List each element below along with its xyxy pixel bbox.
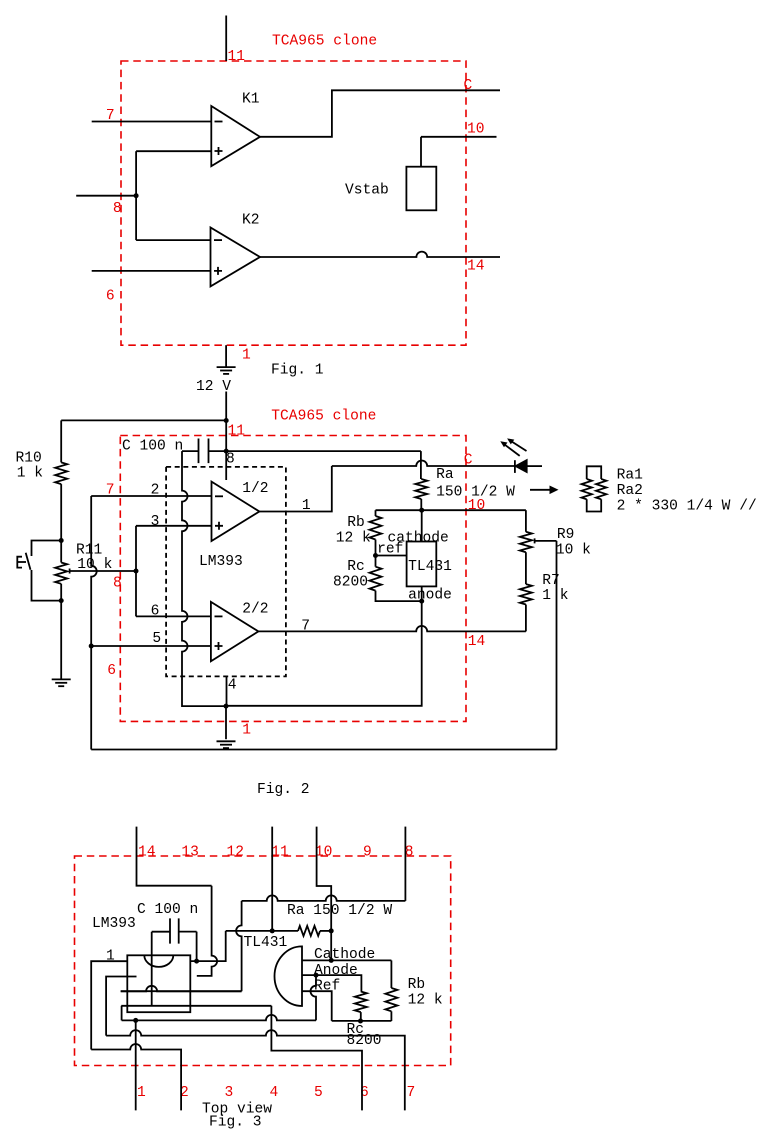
junction 12V rail pin 11 (Fig.3) (270, 928, 275, 933)
junction pin 10 node at Ra (419, 508, 424, 513)
wire K2 output to pin 14 with crossover bump (260, 252, 500, 257)
wire LM393 pin 2 out and down (106, 977, 136, 1036)
junction 12V rail (224, 418, 229, 423)
junction R11 bottom/pushbutton (59, 598, 64, 603)
capacitor C 100 n (Fig.3) (152, 931, 197, 933)
potentiometer R11 10 k (60, 541, 62, 563)
svg-text:9: 9 (363, 845, 372, 861)
svg-text:5: 5 (314, 1085, 323, 1101)
wire Rc bottom lead (Fig.3) (360, 1012, 362, 1021)
pushbutton switch (17, 541, 61, 601)
wire pin 1 to ground (Fig.2) (225, 706, 227, 739)
svg-text:10 k: 10 k (556, 543, 591, 559)
wire Ra to pin 10 node (320, 930, 331, 932)
wire 12V rail to R10 (61, 419, 226, 421)
arrow pointing to Ra1/Ra2 alternative (530, 489, 551, 491)
resistor R7 1 k (520, 584, 532, 604)
svg-text:7: 7 (106, 108, 115, 124)
wire node 8 vertical joining K1+ and K2- (135, 151, 137, 240)
svg-text:C: C (464, 78, 473, 94)
wire cap plus down to pin 8 (196, 932, 198, 962)
svg-text:Anode: Anode (314, 963, 358, 979)
plus input marker K1 (215, 147, 223, 155)
svg-text:R11: R11 (76, 542, 103, 558)
wire Ref line down (Fig.3) (302, 991, 332, 1021)
svg-text:TL431: TL431 (408, 559, 452, 575)
junction LM393 pin 8 (Fig.3) (194, 959, 199, 964)
svg-text:4: 4 (228, 678, 237, 694)
wire output 7 to pin 14 and R7 (258, 626, 526, 631)
ground symbol left (Fig.2) (52, 679, 71, 686)
svg-text:2/2: 2/2 (242, 602, 268, 618)
wire LM393 pins 3-6 through IC with bump (121, 986, 242, 991)
wire pin14 to LM393 pin 7 with bump (197, 886, 217, 976)
svg-text:Rb: Rb (347, 515, 365, 531)
resistor Ra 150 (Fig.3) (298, 926, 320, 936)
svg-text:Vstab: Vstab (345, 183, 389, 199)
op-amp 1/2 (LM393) (212, 482, 260, 541)
junction pin 8 / capacitor node (224, 449, 229, 454)
wiper arrow of R9 (535, 538, 557, 543)
svg-text:8: 8 (113, 576, 122, 592)
op-amp K2 (211, 228, 261, 287)
wire pin 1 to ground (Fig.1) (225, 345, 227, 367)
svg-text:11: 11 (228, 49, 246, 65)
svg-text:14: 14 (138, 845, 156, 861)
resistor Rb 12 k (370, 516, 382, 540)
wire pin 8 across with bumps (242, 895, 406, 901)
svg-text:13: 13 (181, 845, 199, 861)
svg-text:11: 11 (228, 424, 246, 440)
svg-text:10: 10 (468, 498, 486, 514)
wire Rc top lead (375, 556, 377, 567)
wire cap minus down through notch (151, 932, 153, 1006)
svg-text:1: 1 (242, 723, 251, 739)
svg-text:2: 2 (151, 483, 160, 499)
svg-text:12 k: 12 k (408, 993, 443, 1009)
minus input marker K1 (215, 121, 223, 123)
IC LM393 DIP-8 top view (127, 955, 190, 1012)
svg-text:3: 3 (225, 1085, 234, 1101)
wiper arrow of R11 to node 8 (70, 569, 136, 574)
resistor Rb 12 k (Fig.3) (385, 988, 397, 1011)
svg-text:ref: ref (377, 541, 403, 557)
junction Ra right / pin 10 (Fig.3) (329, 928, 334, 933)
LED with emission arrows (514, 460, 516, 473)
wire Ra bottom lead (420, 499, 422, 510)
resistor Ra 150 1/2 W (415, 479, 427, 499)
wire to K2 inverting input (136, 239, 210, 241)
wire module pin 10 top (317, 827, 332, 931)
wire pin 10 (421, 136, 497, 138)
wire pin 10 node rail (376, 509, 526, 511)
wire LM393 pin 1 out and down (91, 961, 127, 1049)
wire bottom rail (Fig.2) (91, 749, 556, 751)
svg-text:K1: K1 (242, 92, 260, 108)
svg-text:Cathode: Cathode (314, 947, 375, 963)
op-amp K1 (211, 106, 260, 166)
wire pin8 net down with bump at 12V rail (236, 901, 241, 991)
resistor Rc 8200 (Fig.3) (355, 992, 367, 1013)
svg-text:14: 14 (468, 634, 486, 650)
wire K1 output to pin C (260, 90, 500, 137)
wire R9 to R7 (525, 552, 527, 584)
wire pin 8 input (76, 195, 136, 197)
wire pin 5 net to module pin 6 (271, 1006, 362, 1111)
wire cathode lead (421, 510, 423, 541)
wire pin 5 input (pin 6 of module) (91, 645, 211, 647)
wire 12V feed into Fig.2 (225, 392, 227, 421)
plus input marker K2 (214, 267, 222, 275)
svg-text:Fig. 1: Fig. 1 (271, 363, 324, 379)
wire pin 4 down (121, 1006, 123, 1021)
resistor R10 1 k (55, 462, 67, 484)
wire pin 11 supply stub (Fig.1) (225, 16, 227, 62)
svg-text:2 * 330 1/4 W //: 2 * 330 1/4 W // (617, 499, 757, 515)
svg-text:R10: R10 (16, 451, 42, 467)
svg-text:Ra2: Ra2 (617, 483, 643, 499)
plus marker 2/2 (215, 642, 223, 650)
wire Ra top lead (420, 451, 422, 479)
wire 12V rail (Fig.3) (226, 930, 298, 932)
wire Rb bottom to ref (375, 540, 377, 556)
svg-text:10: 10 (467, 122, 485, 138)
svg-text:8: 8 (113, 201, 122, 217)
plus marker 1/2 (215, 522, 223, 530)
wire R9 top lead (525, 510, 527, 532)
svg-text:14: 14 (467, 259, 485, 275)
svg-text:6: 6 (107, 663, 116, 679)
svg-text:12: 12 (227, 845, 245, 861)
svg-text:LM393: LM393 (199, 554, 243, 570)
svg-text:1 k: 1 k (17, 466, 44, 482)
svg-text:Ra: Ra (436, 467, 454, 483)
wire LED anode stub (527, 465, 542, 467)
junction node 8 (Fig.1) (134, 193, 139, 198)
svg-text:5: 5 (152, 631, 161, 647)
wire Vstab to pin 10 (420, 137, 422, 167)
svg-text:LM393: LM393 (92, 916, 136, 932)
wire pin 8 into LM393 box (225, 451, 227, 480)
minus marker 2/2 (215, 615, 223, 617)
svg-text:Fig. 3: Fig. 3 (209, 1115, 262, 1131)
regulator Vstab (406, 167, 436, 211)
svg-text:8: 8 (226, 451, 235, 467)
junction ground node pin 4 (224, 704, 229, 709)
svg-text:11: 11 (271, 845, 289, 861)
svg-text:K2: K2 (242, 213, 260, 229)
ground symbol (Fig.1) (217, 367, 236, 374)
wire pin1 net to module pin 2 (91, 1044, 181, 1110)
svg-text:Rb: Rb (408, 977, 426, 993)
svg-text:anode: anode (408, 587, 452, 603)
junction cathode/pin 10 (Fig.3) (329, 958, 334, 963)
svg-text:1: 1 (302, 498, 311, 514)
module boundary dashed (Fig.3) (75, 856, 451, 1066)
wire cathode line (Fig.3) (302, 959, 391, 961)
wire R9 wiper down (556, 541, 558, 750)
wire joining pin3 and pin6 (135, 526, 137, 617)
junction node 8 wiper (134, 569, 139, 574)
wire R10 bottom to junction (60, 484, 62, 540)
potentiometer R9 10 k (520, 532, 532, 552)
TCA965 clone dashed boundary (Fig.2) (120, 436, 466, 722)
junction ref node (373, 553, 378, 558)
IC TL431 (Fig.2) (407, 542, 437, 587)
wire to K1 non-inverting input (136, 150, 211, 152)
op-amp 2/2 (LM393) (211, 602, 259, 661)
svg-text:6: 6 (106, 289, 115, 305)
wire pin 2 input (pin 7 of module) (91, 495, 211, 497)
wire internal ground rail of LM393 (cap minus to pin 4) (182, 451, 226, 706)
IC LM393 dashed outline (166, 467, 286, 677)
wire ref rail to Rb bottom (Fig.3) (332, 1020, 392, 1022)
svg-text:C: C (464, 453, 473, 469)
wire pin 6 input (136, 615, 211, 617)
wire pin 7 to K1 inverting input (92, 121, 212, 123)
svg-text:TCA965 clone: TCA965 clone (271, 409, 376, 425)
svg-text:Ra 150 1/2 W: Ra 150 1/2 W (287, 903, 392, 919)
junction anode node (419, 599, 424, 604)
svg-text:4: 4 (270, 1085, 279, 1101)
wire output 1 up (259, 466, 331, 512)
wire R11 bottom to ground (60, 601, 62, 680)
wire module pin 14 top (137, 827, 212, 886)
wire pin 4 stub (226, 676, 228, 706)
svg-text:1/2: 1/2 (242, 481, 268, 497)
minus input marker K2 (214, 239, 222, 241)
svg-text:Fig. 2: Fig. 2 (257, 782, 310, 798)
wire pin 6 to K2 non-inverting input (92, 270, 211, 272)
svg-text:7: 7 (106, 483, 115, 499)
wire R10 top lead (60, 420, 62, 462)
wire 12V down to pin8/cap node (225, 421, 227, 452)
wire module pin 8 top (404, 827, 406, 901)
wire pin 10 node to cathode (330, 931, 332, 961)
wire C net to LED with bump (332, 461, 515, 467)
wire LM393 pin 8 to 12V rail (190, 931, 225, 961)
svg-text:7: 7 (301, 619, 310, 635)
svg-text:8200: 8200 (333, 575, 368, 591)
wire anode line to Rc top (Fig.3) (302, 975, 361, 991)
wire ref to TL431 (376, 555, 407, 557)
junction pin5/pin2 node (89, 644, 94, 649)
resistor Rc 8200 (370, 567, 382, 591)
wire pin5 node down to bottom rail (90, 646, 92, 750)
wire R7 bottom lead (525, 605, 527, 632)
svg-text:TL431: TL431 (244, 935, 288, 951)
junction anode (Fig.3) (314, 973, 319, 978)
wire LM393 pins 4-5 through IC (121, 1005, 271, 1007)
IC TL431 TO-92 top view (275, 946, 303, 1006)
svg-text:1: 1 (242, 348, 251, 364)
svg-text:Ra1: Ra1 (617, 468, 644, 484)
svg-text:1: 1 (137, 1085, 146, 1101)
wire Rc bottom to anode (376, 591, 422, 602)
svg-text:C 100 n: C 100 n (137, 902, 198, 918)
resistors Ra1/Ra2 parallel pair (587, 466, 602, 479)
wire pin 3 input (136, 525, 212, 527)
junction R10/R11/pushbutton top (59, 538, 64, 543)
svg-text:12 k: 12 k (336, 531, 371, 547)
svg-text:6: 6 (151, 603, 160, 619)
svg-text:R9: R9 (557, 527, 575, 543)
junction Rc bottom (Fig.3) (358, 1019, 363, 1024)
svg-text:Ref: Ref (314, 979, 340, 995)
wire joining pin2 and pin5 with bump (91, 496, 97, 646)
wire ground line (Fig.3) (122, 1015, 316, 1021)
capacitor C 100 n (182, 450, 226, 452)
minus marker 1/2 (215, 495, 223, 497)
wire anode lead (421, 586, 423, 601)
junction ground / module pin 1 (Fig.3) (133, 1018, 138, 1023)
wire Rb bottom lead (Fig.3) (390, 1011, 392, 1021)
wire LM393 pins 3-6 line (121, 990, 242, 992)
TCA965 clone dashed boundary (Fig.1) (121, 61, 466, 345)
wire module pin 11 top (271, 827, 273, 931)
svg-text:8200: 8200 (347, 1033, 382, 1049)
wire Rb top lead (Fig.3) (390, 960, 392, 988)
svg-text:3: 3 (151, 514, 160, 530)
svg-text:C 100 n: C 100 n (122, 438, 183, 454)
svg-text:TCA965 clone: TCA965 clone (272, 34, 377, 50)
wire Rb top lead (375, 510, 377, 516)
wire pin2 net to module pin 7 (106, 1030, 405, 1110)
svg-text:7: 7 (407, 1085, 416, 1101)
wire anode to ground rail (226, 601, 422, 706)
ground symbol center (Fig.2) (217, 741, 236, 748)
svg-text:10: 10 (315, 845, 333, 861)
wire cap node to Ra top (226, 450, 421, 452)
svg-text:1 k: 1 k (542, 588, 569, 604)
wire ground to anode riser with bump (311, 975, 317, 1020)
wire module pin 1 bottom (135, 1020, 137, 1110)
svg-text:Rc: Rc (347, 559, 365, 575)
